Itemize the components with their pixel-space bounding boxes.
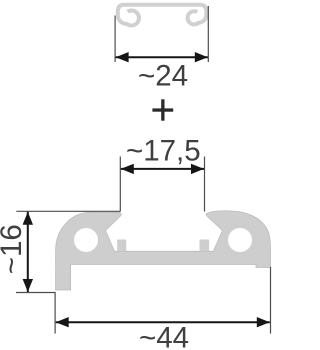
plus sign	[152, 99, 173, 120]
arrow bottom ~16	[23, 279, 33, 292]
arrow left ~24	[116, 52, 129, 62]
svg-text:~44: ~44	[139, 322, 189, 350]
dimension line ~24	[116, 56, 208, 58]
dim ~44 extension left	[54, 293, 56, 334]
hole right	[228, 228, 252, 252]
rib post right	[200, 240, 210, 252]
svg-text:~16: ~16	[0, 224, 28, 274]
dim line ~24 extension left	[114, 16, 116, 63]
svg-text:~24: ~24	[138, 60, 188, 93]
dim ~44 extension right	[270, 267, 272, 334]
dim ~16 extension bottom	[16, 292, 56, 294]
dimension line ~17,5	[121, 168, 204, 170]
base profile body	[56, 211, 271, 290]
dim line ~24 extension right	[207, 6, 209, 62]
arrow left ~44	[56, 317, 69, 327]
arrow top ~16	[23, 212, 33, 225]
svg-text:~17,5: ~17,5	[126, 135, 201, 168]
dim ~17,5 extension left	[119, 157, 121, 212]
rib post left	[117, 240, 126, 252]
dim ~17,5 extension right	[204, 157, 206, 212]
arrow left ~17,5	[121, 164, 134, 174]
dim ~16 extension top	[16, 210, 120, 212]
arrow right ~44	[257, 317, 270, 327]
hole left	[74, 228, 98, 252]
arrow right ~17,5	[191, 164, 204, 174]
dimension line ~16	[27, 212, 29, 292]
cover profile (top clip-on lid cross-section)	[118, 5, 207, 26]
arrow right ~24	[195, 52, 208, 62]
dimension line ~44	[56, 321, 270, 323]
